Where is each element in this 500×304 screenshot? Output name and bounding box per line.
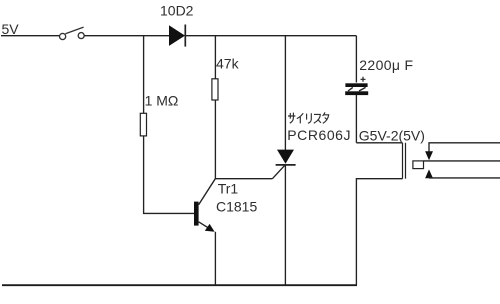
label 2200uF value [359,57,413,73]
svg-text:G5V-2(5V): G5V-2(5V) [359,128,425,144]
relay contact arrow down [425,151,433,160]
wire thyristor cathode to bottom rail [284,165,286,285]
wire collector node to thyristor gate [215,178,273,180]
svg-text:5V: 5V [2,21,20,37]
relay contact NO terminal line [429,177,500,179]
wire bottom rail [2,284,357,286]
wire emitter to bottom rail [214,232,216,285]
label 10D2 [160,3,194,19]
relay contact common terminal line [424,160,500,162]
svg-text:47k: 47k [216,56,240,72]
relay contact arrow up [425,169,433,178]
label 1 Mohm value [145,92,179,108]
svg-text:PCR606J: PCR606J [287,127,351,143]
wire junction down to 1M resistor [143,36,145,113]
relay coil K1 left line [402,143,404,179]
wire diode cathode to capacitor branch corner [185,35,356,37]
wire switch to diode anode [84,35,169,37]
label 47k value [216,56,240,72]
wire top rail to thyristor anode [284,36,286,150]
wire junction down to 47k resistor [214,36,216,79]
wire 5V to switch [1,35,60,37]
relay coil K1 right line [405,143,407,179]
svg-text:Tr1: Tr1 [218,181,239,197]
svg-text:10D2: 10D2 [160,3,194,19]
resistor R1 1M ohm body [140,113,146,136]
relay contact NC terminal line [429,143,500,152]
label PCR606J part number [287,127,351,143]
wire R2 to collector node [214,100,216,179]
resistor R2 47k body [212,79,218,100]
wire top rail corner down to capacitor [355,36,357,83]
transistor Q1 Tr1 C1815 [194,179,215,232]
label katakana sairisuta (thyristor) [288,112,329,123]
label C1815 part number [216,198,257,214]
diode 10D2 [169,25,185,47]
label Tr1 designator [218,181,239,197]
switch SW1 [60,27,85,40]
capacitor C1 2200uF electrolytic [345,77,368,95]
wire capacitor to relay coil top [356,95,402,143]
svg-text:1 MΩ: 1 MΩ [145,92,179,108]
node 5V supply label [2,21,20,37]
thyristor SCR PCR606J [276,150,296,165]
wire R1 to transistor base [144,136,194,214]
relay contact common pole box [413,161,424,169]
label G5V-2(5V) relay type [359,128,425,144]
svg-text:2200μ F: 2200μ F [359,57,413,73]
wire relay coil bottom to bottom rail [356,179,402,285]
wire gate diagonal [272,165,285,179]
svg-text:C1815: C1815 [216,198,257,214]
